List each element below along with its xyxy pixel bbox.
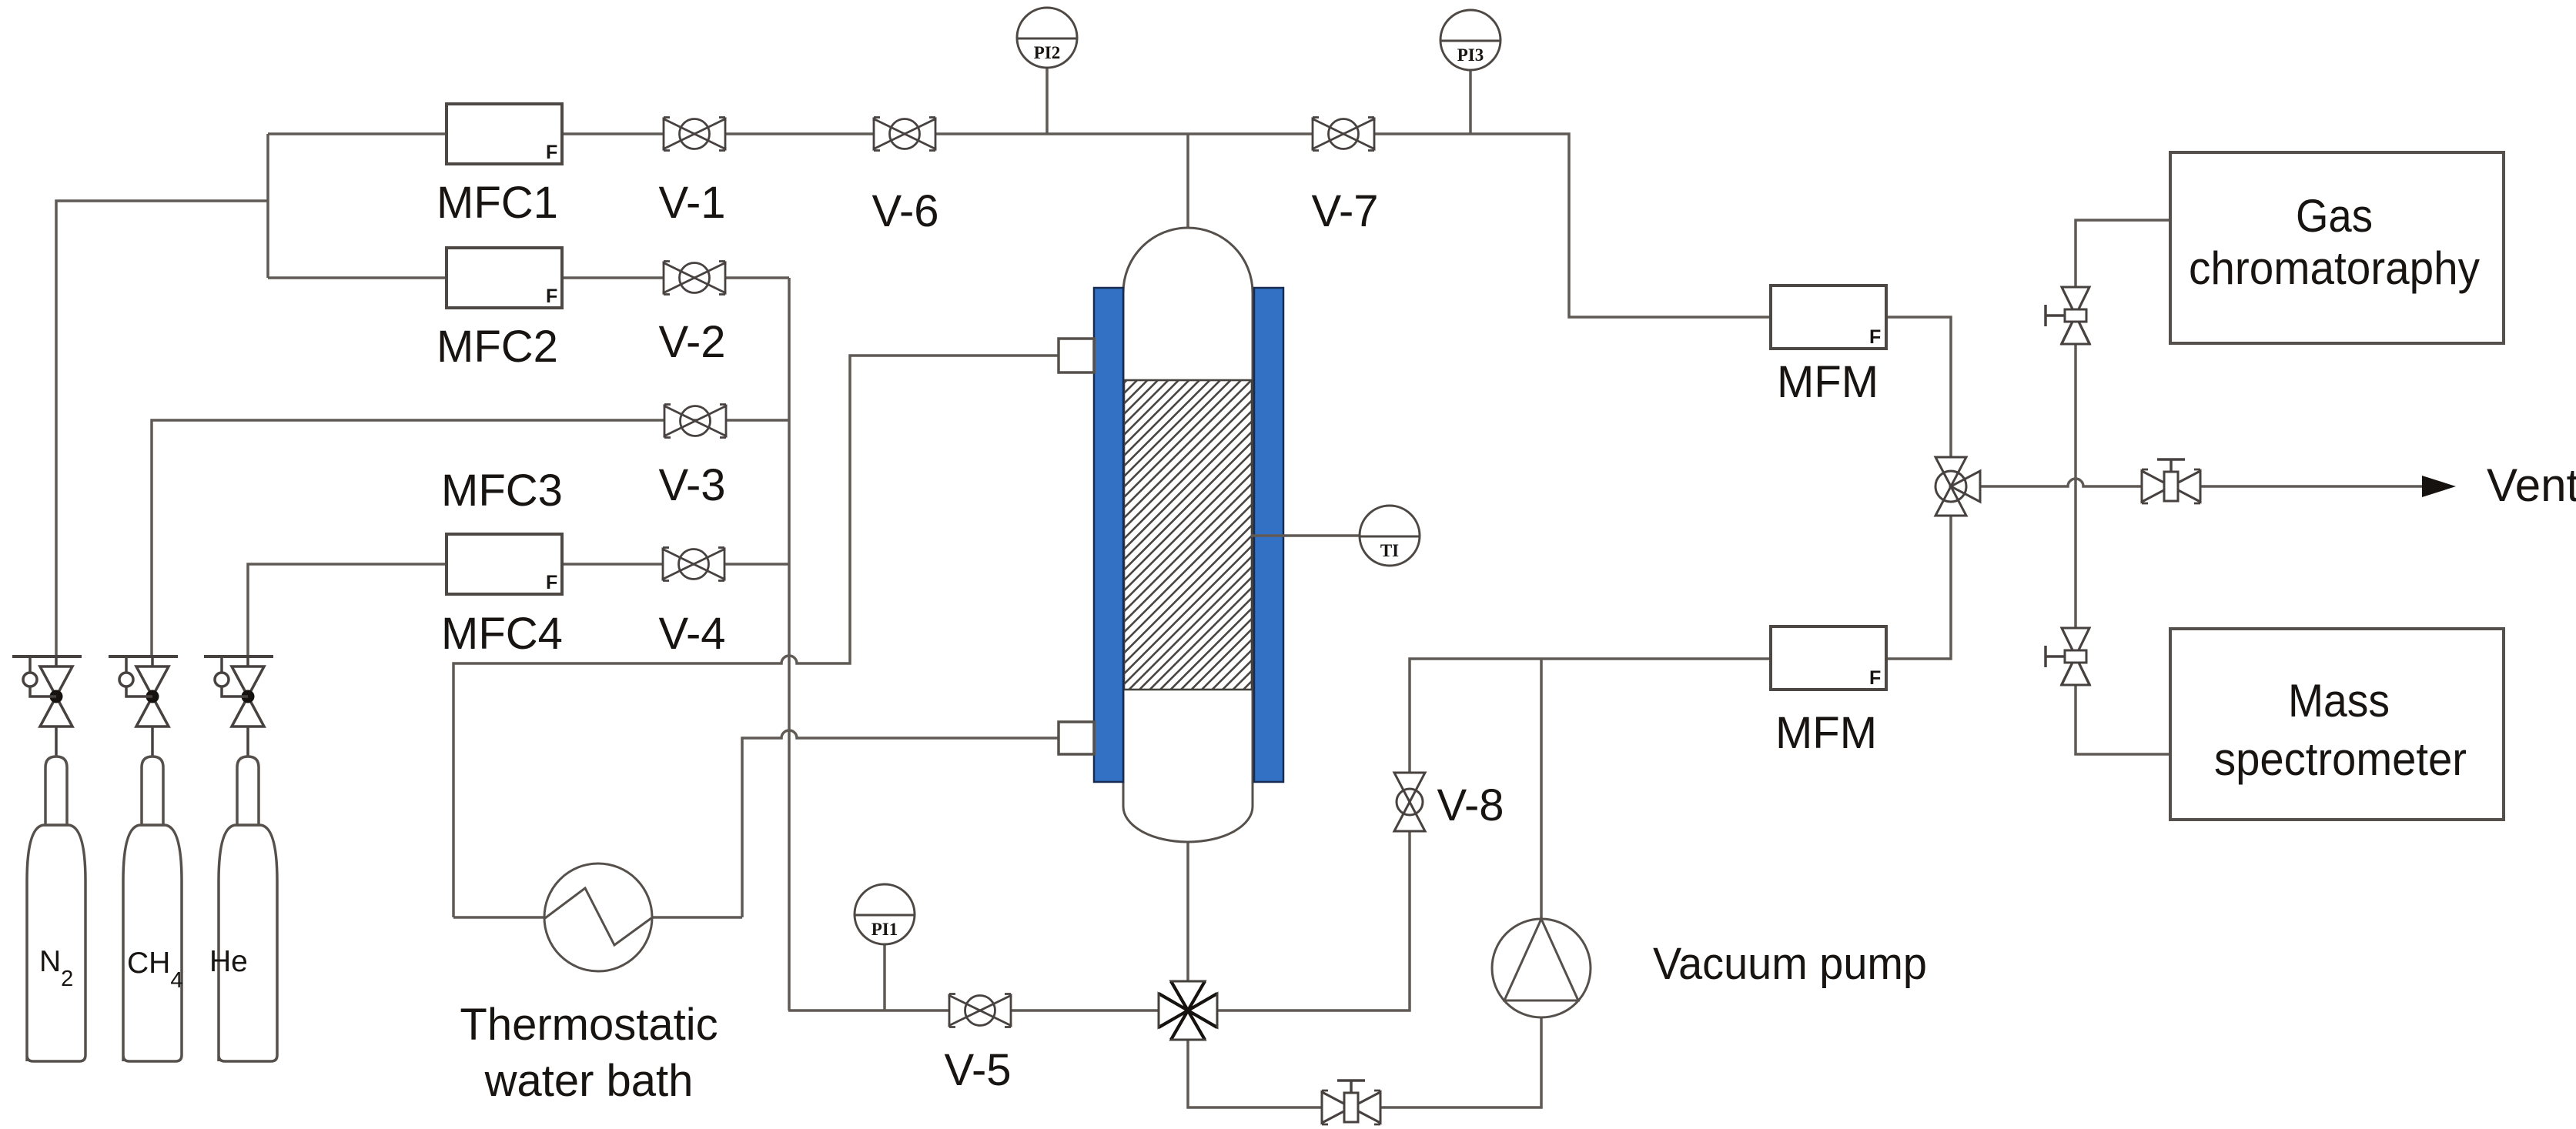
svg-text:F: F xyxy=(546,286,557,307)
svg-text:MFC4: MFC4 xyxy=(441,609,563,659)
reactor vessel xyxy=(1123,228,1253,842)
wire CH4 / V-3 line xyxy=(152,420,789,656)
wire reactor top feed xyxy=(1186,134,1189,228)
CH4 cylinder xyxy=(123,757,182,1061)
gauge PI1 xyxy=(855,884,915,944)
svg-text:V-6: V-6 xyxy=(871,186,938,236)
svg-text:Vacuum pump: Vacuum pump xyxy=(1653,939,1927,989)
reactor upper jacket port xyxy=(1059,339,1094,372)
svg-text:Gas: Gas xyxy=(2296,190,2373,242)
svg-text:He: He xyxy=(209,945,248,978)
wire vent line xyxy=(1979,479,2424,486)
wire He / MFC4 line xyxy=(248,564,789,656)
reactor lower jacket port xyxy=(1059,722,1094,754)
needle valve to mass spectrometer xyxy=(2046,628,2090,686)
MFC2 box xyxy=(447,248,562,308)
He cylinder xyxy=(219,757,277,1061)
valve V-6 xyxy=(874,118,935,151)
wire top main line xyxy=(268,134,1771,317)
svg-text:chromatoraphy: chromatoraphy xyxy=(2189,242,2480,294)
svg-text:F: F xyxy=(1869,326,1881,348)
wire jacket return line xyxy=(453,356,1059,917)
svg-text:PI2: PI2 xyxy=(1034,43,1061,62)
valve V-7 xyxy=(1313,118,1374,151)
reactor right heater bar xyxy=(1254,288,1283,782)
wire PI2 stem xyxy=(1045,68,1049,134)
wire PI1 stem xyxy=(883,944,886,1010)
svg-text:water bath: water bath xyxy=(484,1056,694,1106)
vent needle valve xyxy=(2142,459,2200,503)
vacuum pump xyxy=(1492,919,1591,1017)
svg-text:V-1: V-1 xyxy=(658,178,725,228)
Gas chromatography box xyxy=(2170,152,2504,343)
N2 cylinder xyxy=(27,757,85,1061)
svg-text:F: F xyxy=(546,142,557,163)
MFC1 box xyxy=(447,104,562,164)
svg-text:MFM: MFM xyxy=(1777,357,1878,407)
wire reactor drain and pump bottom line xyxy=(1188,842,1541,1107)
reactor packed bed (hatched) xyxy=(1124,380,1252,690)
wire MFM1 outlet to MFM2 xyxy=(1886,317,1951,659)
svg-text:F: F xyxy=(1869,667,1881,689)
gauge PI2 xyxy=(1017,8,1077,68)
vacuum pump bypass valve xyxy=(1322,1081,1380,1124)
svg-text:TI: TI xyxy=(1380,541,1399,560)
gauge PI3 xyxy=(1440,10,1500,70)
valve V-8 xyxy=(1394,773,1425,831)
reactor left heater bar xyxy=(1094,288,1123,782)
thermostatic water bath xyxy=(544,863,652,971)
svg-text:Vent: Vent xyxy=(2487,459,2576,511)
gauge TI xyxy=(1360,506,1420,566)
three-way valve xyxy=(1935,457,1980,516)
wire bath crossing line xyxy=(453,916,742,919)
wire vacuum pump riser xyxy=(1540,659,1543,919)
valve V-3 xyxy=(664,405,726,438)
wire MFC2 line xyxy=(268,276,789,279)
svg-text:MFC2: MFC2 xyxy=(437,322,558,372)
N2 cylinder regulator xyxy=(12,656,82,757)
He cylinder regulator xyxy=(204,656,273,757)
svg-text:V-7: V-7 xyxy=(1311,186,1378,236)
svg-text:V-8: V-8 xyxy=(1437,780,1504,830)
svg-text:F: F xyxy=(546,572,557,593)
wire GC / MS branch xyxy=(2076,220,2170,754)
needle valve to gas chromatography xyxy=(2046,287,2090,345)
svg-text:spectrometer: spectrometer xyxy=(2214,733,2467,785)
svg-text:MFM: MFM xyxy=(1775,708,1877,758)
svg-text:V-3: V-3 xyxy=(658,460,725,510)
wire N2 feed xyxy=(56,201,268,656)
wire PI3 stem xyxy=(1469,70,1472,134)
wire TI lead xyxy=(1251,534,1360,537)
svg-text:Mass: Mass xyxy=(2288,675,2390,727)
MFM1 box xyxy=(1771,286,1886,349)
svg-text:V-5: V-5 xyxy=(944,1045,1011,1095)
valve V-1 xyxy=(664,118,725,151)
svg-text:PI1: PI1 xyxy=(871,920,898,939)
valve V-4 xyxy=(663,548,724,581)
svg-text:PI3: PI3 xyxy=(1457,45,1484,65)
vent arrow xyxy=(2422,476,2456,497)
wire manifold bus xyxy=(788,278,791,1010)
wire V-5 line to V-8 riser to MFM2 xyxy=(788,659,1771,1010)
valve V-5 xyxy=(949,994,1011,1027)
wire MFC1 branch riser xyxy=(266,134,269,278)
svg-text:MFC3: MFC3 xyxy=(441,466,563,516)
svg-text:V-4: V-4 xyxy=(658,609,725,659)
wire jacket supply line xyxy=(742,730,1059,917)
svg-text:Thermostatic: Thermostatic xyxy=(460,1000,718,1050)
MFC4 box xyxy=(447,534,562,594)
four-way cross valve xyxy=(1159,981,1217,1040)
CH4 cylinder regulator xyxy=(109,656,178,757)
Mass spectrometer box xyxy=(2170,629,2504,820)
valve V-2 xyxy=(664,262,725,295)
svg-text:MFC1: MFC1 xyxy=(437,178,558,228)
svg-text:V-2: V-2 xyxy=(658,317,725,367)
MFM2 box xyxy=(1771,626,1886,690)
